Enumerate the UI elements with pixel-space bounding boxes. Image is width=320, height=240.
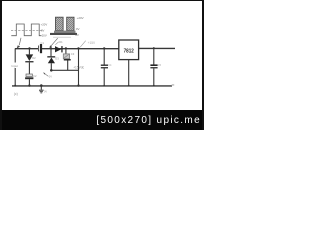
svg-text:C5: C5 xyxy=(158,64,162,67)
svg-text:C3: C3 xyxy=(71,52,75,56)
svg-text:C1: C1 xyxy=(41,41,45,45)
svg-text:0V: 0V xyxy=(76,27,80,31)
svg-text:+20V: +20V xyxy=(41,23,48,27)
svg-text:C2: C2 xyxy=(33,74,37,78)
svg-text:Input: Input xyxy=(12,64,19,68)
svg-text:D2: D2 xyxy=(32,56,36,60)
svg-text:7812: 7812 xyxy=(124,49,134,55)
svg-text:C4: C4 xyxy=(108,64,112,67)
svg-text:+20V: +20V xyxy=(77,16,84,20)
svg-text:+15V: +15V xyxy=(88,41,96,45)
svg-text:0V: 0V xyxy=(75,33,79,37)
svg-text:0V: 0V xyxy=(44,91,47,94)
svg-text:-20V: -20V xyxy=(41,33,47,37)
svg-text:0V: 0V xyxy=(41,28,45,32)
svg-text:D1: D1 xyxy=(59,40,63,44)
svg-text:D3: D3 xyxy=(55,57,59,61)
svg-text:0V: 0V xyxy=(49,75,52,79)
svg-text:(c): (c) xyxy=(14,92,18,96)
